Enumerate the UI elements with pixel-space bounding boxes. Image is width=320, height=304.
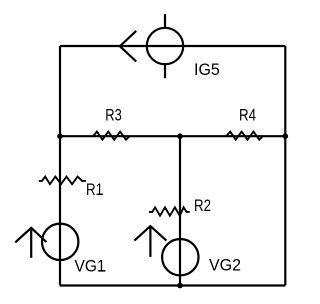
svg-text:IG5: IG5 [194, 61, 220, 79]
svg-text:R4: R4 [239, 106, 256, 124]
svg-text:VG2: VG2 [209, 257, 241, 275]
svg-text:R2: R2 [194, 197, 211, 215]
svg-text:R3: R3 [105, 106, 122, 124]
svg-text:VG1: VG1 [75, 258, 106, 276]
svg-text:R1: R1 [86, 181, 103, 199]
